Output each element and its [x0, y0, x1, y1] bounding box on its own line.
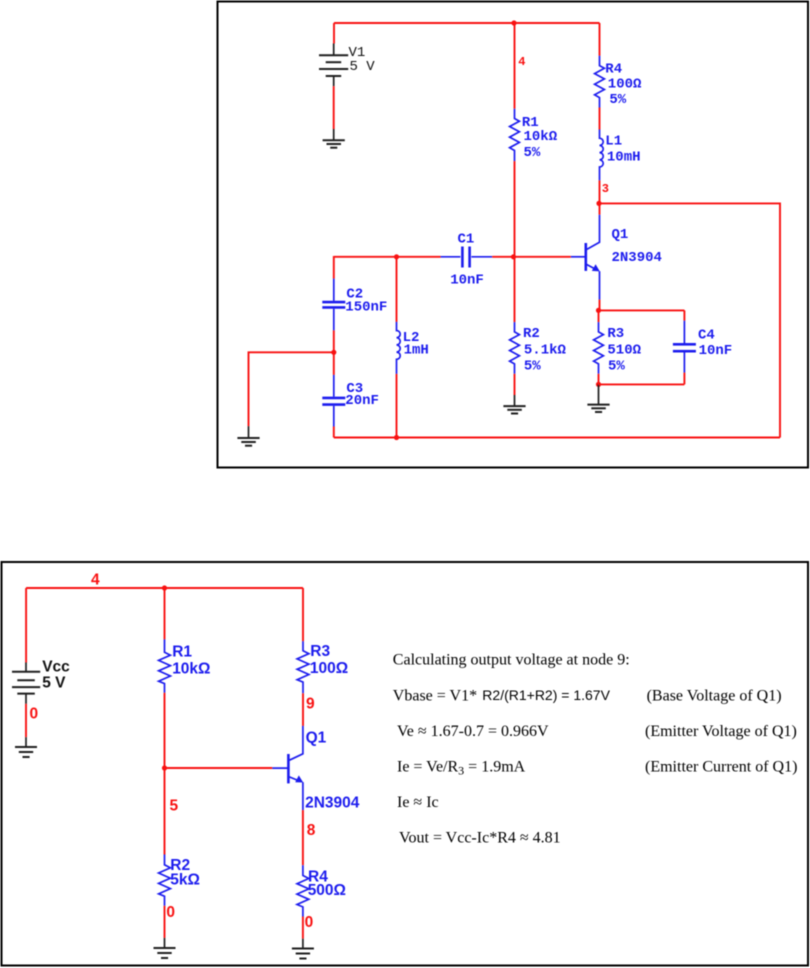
- node 4 label: [518, 55, 525, 69]
- wire V1 top lead: [333, 23, 335, 44]
- capacitor C3: [322, 375, 379, 427]
- wire L1 to node 3: [599, 180, 601, 214]
- svg-text:2N3904: 2N3904: [612, 250, 662, 266]
- wire L2 top lead: [396, 257, 398, 322]
- svg-text:150nF: 150nF: [345, 300, 387, 316]
- capacitor C2: [322, 279, 387, 331]
- svg-text:Vout = Vcc-Ic*R4 ≈ 4.81: Vout = Vcc-Ic*R4 ≈ 4.81: [399, 830, 561, 847]
- wire C1 to base node: [492, 256, 513, 258]
- wire emitter node to C4: [599, 309, 685, 311]
- svg-text:Ie ≈ Ic: Ie ≈ Ic: [397, 794, 439, 811]
- wire node 3 to right rail: [600, 203, 781, 437]
- resistor R2 bottom: [159, 855, 200, 906]
- svg-text:Ve ≈ 1.67-0.7 = 0.966V: Ve ≈ 1.67-0.7 = 0.966V: [397, 723, 549, 740]
- svg-text:Q1: Q1: [612, 227, 629, 243]
- svg-text:Vbase = V1*: Vbase = V1*: [393, 687, 477, 704]
- junction node 5: [162, 765, 167, 770]
- junction L2 top: [394, 254, 399, 259]
- wire C4 bottom lead: [683, 373, 685, 385]
- schematic frame top: [218, 2, 809, 468]
- junction emitter node: [596, 308, 601, 313]
- battery Vcc: [12, 659, 70, 704]
- wire bottom rail: [334, 437, 780, 439]
- annotation line 3: [397, 723, 797, 740]
- node 5 label: [170, 798, 179, 815]
- svg-text:5 V: 5 V: [350, 59, 376, 75]
- annotation line 6: [399, 830, 561, 847]
- svg-text:5%: 5%: [609, 92, 626, 108]
- wire R3 to Q1 collector: [302, 693, 304, 726]
- transistor Q1 bottom: [272, 726, 360, 812]
- wire R3 bottom to C4 bottom: [599, 383, 685, 385]
- wire rail to R1 bottom circuit: [164, 588, 166, 639]
- resistor R3 bottom: [297, 641, 348, 693]
- wire C2 top lead: [333, 256, 335, 279]
- transistor Q1: [571, 215, 662, 300]
- svg-text:5.1kΩ: 5.1kΩ: [524, 343, 567, 359]
- svg-text:5%: 5%: [524, 145, 541, 161]
- wire base node 5 to Q1 base: [165, 767, 273, 769]
- wire emitter to R4: [302, 810, 304, 865]
- node 0 label Vcc: [30, 706, 39, 723]
- wire C3 to bottom rail: [333, 427, 335, 438]
- wire C3 top lead: [333, 352, 335, 375]
- node 4 label bottom: [91, 572, 100, 589]
- node 9 label: [306, 696, 315, 713]
- wire Vcc top lead: [25, 588, 27, 663]
- svg-text:10mH: 10mH: [607, 150, 641, 166]
- svg-text:R3: R3: [607, 326, 624, 342]
- junction base node: [511, 254, 516, 259]
- svg-text:C1: C1: [458, 232, 475, 248]
- svg-text:4: 4: [91, 572, 100, 589]
- wire R4 bottom lead: [302, 917, 304, 939]
- ground under V1: [323, 129, 345, 148]
- inductor L2: [397, 322, 429, 374]
- annotation line 1: [393, 652, 630, 669]
- svg-text:5%: 5%: [524, 359, 541, 375]
- svg-text:4: 4: [518, 55, 525, 69]
- junction node 4 top: [511, 20, 516, 25]
- svg-text:20nF: 20nF: [345, 393, 379, 409]
- resistor R4 bottom: [297, 865, 346, 916]
- inductor L1: [600, 130, 641, 181]
- ground under R2: [503, 395, 525, 414]
- svg-text:L1: L1: [605, 134, 622, 150]
- svg-text:510Ω: 510Ω: [607, 343, 641, 359]
- svg-text:0: 0: [166, 904, 175, 921]
- svg-text:0: 0: [30, 706, 39, 723]
- wire top rail node 4: [334, 22, 600, 24]
- annotation line 2: [393, 687, 782, 705]
- svg-text:Calculating output voltage at: Calculating output voltage at node 9:: [393, 652, 630, 669]
- svg-text:5 V: 5 V: [42, 675, 66, 692]
- ground under R4 bottom: [292, 939, 314, 959]
- svg-text:Vcc: Vcc: [42, 659, 70, 676]
- wire top rail to R4: [599, 23, 601, 56]
- wire V1 bottom lead: [333, 86, 335, 129]
- wire R1 to R2 bottom: [164, 693, 166, 855]
- junction R3 bottom: [596, 382, 601, 387]
- svg-text:Q1: Q1: [306, 730, 327, 747]
- svg-text:C4: C4: [698, 328, 715, 344]
- node 8 label: [307, 822, 316, 839]
- svg-text:9: 9: [306, 696, 315, 713]
- wire top rail bottom circuit: [26, 587, 303, 589]
- ground under Vcc: [15, 737, 37, 757]
- wire R2 bottom lead: [514, 374, 516, 395]
- battery V1: [319, 44, 375, 87]
- wire node4 vertical to R1: [514, 23, 516, 109]
- svg-text:10nF: 10nF: [699, 343, 733, 359]
- node 0 label R2: [166, 904, 175, 921]
- junction top rail: [162, 585, 167, 590]
- wire junction to left ground: [249, 352, 334, 426]
- svg-text:(Base Voltage of Q1): (Base Voltage of Q1): [647, 687, 782, 704]
- svg-text:3: 3: [602, 182, 609, 196]
- svg-text:Ie = Ve/R3 = 1.9mA: Ie = Ve/R3 = 1.9mA: [397, 759, 526, 778]
- wire L2 bottom lead: [396, 374, 398, 438]
- wire R3 bottom lead: [598, 374, 600, 385]
- ground left: [237, 426, 259, 446]
- svg-text:5%: 5%: [608, 359, 625, 375]
- wire R3 top lead: [598, 310, 600, 322]
- resistor R1 bottom: [159, 639, 211, 692]
- junction L2 bottom: [394, 435, 399, 440]
- svg-text:R2/(R1+R2) = 1.67V: R2/(R1+R2) = 1.67V: [482, 687, 610, 703]
- junction left node: [331, 350, 336, 355]
- resistor R2: [510, 322, 567, 374]
- svg-text:100Ω: 100Ω: [310, 660, 348, 677]
- wire emitter lead: [599, 300, 601, 311]
- annotation line 4: [397, 759, 797, 778]
- node 0 label R4: [305, 914, 314, 931]
- svg-text:5kΩ: 5kΩ: [170, 872, 200, 889]
- svg-text:R1: R1: [172, 644, 192, 661]
- resistor R4: [595, 56, 642, 108]
- junction node 3: [596, 201, 601, 206]
- svg-text:(Emitter Current of Q1): (Emitter Current of Q1): [645, 759, 797, 776]
- svg-text:(Emitter Voltage of Q1): (Emitter Voltage of Q1): [645, 723, 797, 740]
- svg-text:10kΩ: 10kΩ: [172, 661, 210, 678]
- svg-text:500Ω: 500Ω: [308, 882, 346, 899]
- svg-text:100Ω: 100Ω: [608, 77, 642, 93]
- svg-text:8: 8: [307, 822, 316, 839]
- resistor R3: [594, 322, 642, 374]
- wire R1 to R2: [514, 161, 516, 322]
- svg-text:R3: R3: [310, 643, 330, 660]
- capacitor C4: [673, 321, 732, 373]
- annotation line 5: [397, 794, 439, 811]
- svg-text:R4: R4: [605, 62, 622, 78]
- ground under R3: [587, 384, 609, 412]
- svg-text:10nF: 10nF: [450, 273, 484, 289]
- wire C2 to junction: [333, 330, 335, 352]
- svg-text:1mH: 1mH: [404, 343, 429, 359]
- wire rail to R3 bottom circuit: [302, 588, 304, 641]
- wire C4 top lead: [683, 310, 685, 320]
- wire Vcc bottom lead: [25, 704, 27, 737]
- svg-text:R2: R2: [523, 326, 540, 342]
- wire R2 bottom lead: [164, 906, 166, 938]
- wire base node to Q1 base: [514, 256, 571, 258]
- ground under R2 bottom: [154, 938, 176, 958]
- svg-text:2N3904: 2N3904: [305, 795, 360, 812]
- capacitor C1: [441, 232, 493, 289]
- svg-text:5: 5: [170, 798, 179, 815]
- wire R4 to L1: [599, 108, 601, 130]
- schematic frame bottom: [2, 562, 809, 966]
- svg-text:0: 0: [305, 914, 314, 931]
- wire left horizontal to C1: [334, 256, 441, 258]
- svg-text:10kΩ: 10kΩ: [524, 129, 558, 145]
- node 3 label: [602, 182, 609, 196]
- resistor R1: [510, 109, 558, 161]
